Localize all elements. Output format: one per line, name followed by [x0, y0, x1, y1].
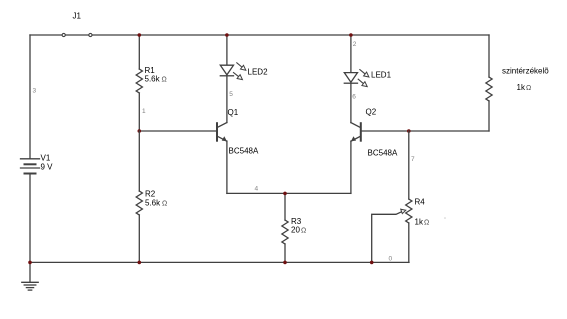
svg-text:1: 1 [142, 108, 146, 115]
connector J1 [62, 12, 92, 37]
wire Q2 base to right branch [361, 130, 489, 132]
svg-text:5.6k: 5.6k [145, 75, 161, 84]
svg-text:LED1: LED1 [371, 71, 392, 80]
wire left rail (battery to bottom) [29, 174, 31, 263]
stray mark [444, 217, 446, 219]
svg-text:Q1: Q1 [228, 108, 239, 117]
junction node1 [138, 129, 142, 133]
svg-text:Ω: Ω [301, 228, 306, 235]
svg-text:LED2: LED2 [248, 68, 269, 77]
junction LED1 top [349, 33, 353, 37]
svg-text:Ω: Ω [162, 77, 167, 84]
svg-text:0: 0 [389, 256, 393, 263]
svg-text:BC548A: BC548A [229, 147, 259, 156]
svg-text:2: 2 [353, 41, 357, 48]
junction wiper bottom [370, 261, 374, 265]
battery V1 [21, 154, 54, 174]
wire top rail [30, 34, 489, 36]
wire left rail (top to battery) [29, 35, 31, 159]
junction R3 top [283, 192, 287, 196]
transistor Q2 [351, 108, 398, 194]
svg-text:4: 4 [255, 186, 259, 193]
LED LED2 [220, 35, 268, 123]
svg-text:V1: V1 [41, 154, 51, 163]
ground [22, 262, 38, 290]
node junction bottom-left [28, 261, 32, 265]
svg-text:1k: 1k [415, 218, 424, 227]
svg-text:5: 5 [229, 91, 233, 98]
svg-text:6: 6 [352, 94, 356, 101]
svg-text:3: 3 [33, 88, 37, 95]
svg-text:J1: J1 [73, 12, 82, 21]
junction R3 bottom [283, 261, 287, 265]
svg-text:R3: R3 [291, 217, 302, 226]
junction base/R4 [407, 129, 411, 133]
resistor R3 [282, 193, 306, 262]
svg-text:9 V: 9 V [41, 163, 54, 172]
svg-text:R1: R1 [145, 66, 156, 75]
junction LED2 top [225, 33, 229, 37]
svg-text:7: 7 [411, 156, 415, 163]
potentiometer R4 [406, 131, 430, 262]
svg-text:BC548A: BC548A [368, 149, 398, 158]
svg-text:20: 20 [291, 226, 300, 235]
svg-text:R4: R4 [415, 197, 426, 206]
junction R2 bottom [138, 261, 142, 265]
svg-text:1k: 1k [517, 83, 526, 92]
svg-text:5.6k: 5.6k [145, 198, 161, 207]
wire bottom rail [30, 261, 409, 263]
resistor R2 [136, 131, 167, 262]
svg-text:szintérzékelõ: szintérzékelõ [502, 67, 549, 76]
wire emitters (node 4) [227, 192, 351, 194]
LED LED1 [344, 35, 391, 123]
svg-text:R2: R2 [145, 190, 156, 199]
svg-text:Ω: Ω [424, 220, 429, 227]
resistor R1 [136, 35, 167, 131]
transistor Q1 [217, 108, 259, 193]
junction R1 top [138, 33, 142, 37]
wiper of R4 [372, 209, 406, 262]
resistor szinterzekelo 1k [486, 35, 549, 131]
wire node1 to Q1 base [139, 130, 216, 132]
svg-text:Q2: Q2 [366, 108, 377, 117]
svg-text:Ω: Ω [526, 85, 531, 92]
svg-text:Ω: Ω [162, 200, 167, 207]
